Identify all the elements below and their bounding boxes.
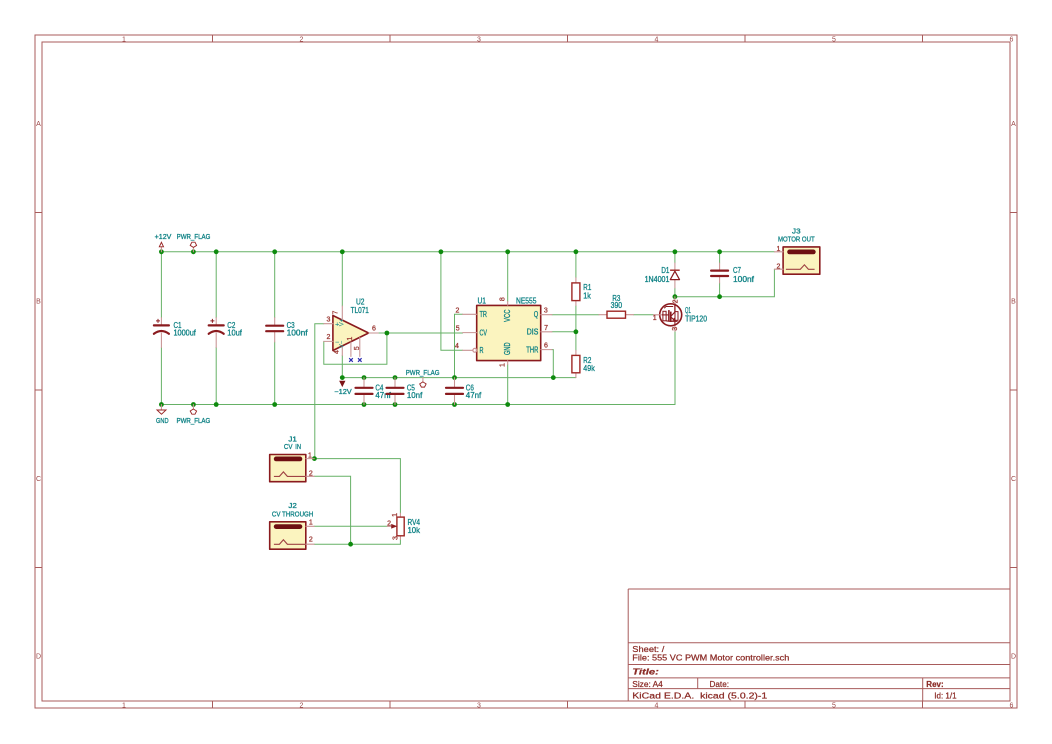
wire D1 bottom xyxy=(674,288,676,297)
connector J1 CV IN xyxy=(270,437,315,482)
svg-text:100nf: 100nf xyxy=(733,275,755,284)
svg-text:1: 1 xyxy=(308,453,312,460)
svg-text:1: 1 xyxy=(392,513,399,517)
svg-text:5: 5 xyxy=(354,346,361,350)
svg-text:7: 7 xyxy=(332,310,339,314)
svg-text:2: 2 xyxy=(309,537,313,544)
junction -12V rail at THR wire xyxy=(551,375,556,380)
svg-text:NE555: NE555 xyxy=(516,296,537,305)
svg-text:U1: U1 xyxy=(478,296,487,305)
capacitor C7 xyxy=(711,263,755,284)
junction top rail at D1 xyxy=(673,249,678,254)
junction top rail at PWR_FLAG xyxy=(191,249,196,254)
junction DIS node xyxy=(574,329,579,334)
junction bottom rail at C3 xyxy=(272,402,277,407)
junction bottom rail at C4 xyxy=(362,402,367,407)
junction top rail at C1 xyxy=(159,249,164,254)
svg-text:TL071: TL071 xyxy=(351,306,370,315)
svg-text:Q: Q xyxy=(534,310,539,319)
capacitor C6 xyxy=(446,378,482,405)
svg-text:PWR_FLAG: PWR_FLAG xyxy=(406,370,440,377)
power +12V xyxy=(155,234,172,252)
svg-text:4: 4 xyxy=(333,350,340,354)
wire R1 bottom to DIS and R2 xyxy=(575,306,577,351)
svg-text:1: 1 xyxy=(309,520,313,527)
junction -12V rail at C4 xyxy=(362,375,367,380)
svg-text:J3: J3 xyxy=(792,228,801,235)
svg-text:C: C xyxy=(1011,476,1016,483)
junction J1 pin1 xyxy=(312,456,317,461)
svg-text:GND: GND xyxy=(503,342,512,355)
power GND xyxy=(156,405,169,425)
svg-text:1: 1 xyxy=(777,246,781,253)
wire -12V rail xyxy=(342,377,576,379)
svg-text:10nf: 10nf xyxy=(407,391,423,400)
junction J2 pin2 branch xyxy=(348,542,353,547)
power -12V xyxy=(334,381,352,396)
timer U1 NE555 xyxy=(455,296,552,367)
svg-text:6: 6 xyxy=(372,326,376,333)
wire 555 TR to -12V rail xyxy=(455,314,463,377)
svg-text:1k: 1k xyxy=(583,292,591,301)
capacitor C4 xyxy=(356,378,392,405)
svg-text:1: 1 xyxy=(500,363,507,367)
svg-text:MOTOR OUT: MOTOR OUT xyxy=(778,237,815,244)
wire C1 top xyxy=(160,252,162,318)
svg-text:Date:: Date: xyxy=(710,680,730,689)
svg-text:7: 7 xyxy=(544,325,548,332)
svg-text:Size: A4: Size: A4 xyxy=(632,680,663,689)
svg-text:GND: GND xyxy=(156,418,169,425)
junction -12V rail at U2 pin4 xyxy=(340,375,345,380)
wire 555 THR to -12V rail xyxy=(552,350,553,378)
svg-text:8: 8 xyxy=(500,297,507,301)
wire collector node to J3 pin2 xyxy=(675,269,775,297)
wire J1 pin2 down xyxy=(314,476,350,544)
svg-text:2: 2 xyxy=(672,299,679,303)
transistor Q1 TIP120 xyxy=(653,297,708,332)
no-connect x on U2 pin1 xyxy=(349,358,353,362)
svg-text:3: 3 xyxy=(672,327,679,331)
wire D1 top xyxy=(674,252,676,263)
wire GND bottom rail xyxy=(161,404,675,406)
svg-text:TR: TR xyxy=(480,310,488,319)
svg-text:2: 2 xyxy=(455,308,459,315)
svg-text:V−: V− xyxy=(339,340,345,348)
junction collector node at D1 xyxy=(673,294,678,299)
junction collector node at C7 xyxy=(717,294,722,299)
svg-text:1N4001: 1N4001 xyxy=(645,275,670,284)
capacitor C1 xyxy=(154,318,197,348)
svg-text:3: 3 xyxy=(544,307,548,314)
svg-text:3: 3 xyxy=(477,703,481,710)
svg-text:D: D xyxy=(36,654,41,661)
svg-text:Id: 1/1: Id: 1/1 xyxy=(934,692,957,701)
svg-text:B: B xyxy=(1011,299,1016,306)
junction top rail at reset wire xyxy=(439,249,444,254)
svg-text:2: 2 xyxy=(309,470,313,477)
svg-text:D1: D1 xyxy=(661,266,669,275)
svg-text:6: 6 xyxy=(544,343,548,350)
wire C4 C5 C6 bottoms xyxy=(364,396,455,405)
svg-text:File: 555 VC PWM Motor control: File: 555 VC PWM Motor controller.sch xyxy=(632,653,789,662)
wire C3 bottom xyxy=(274,342,276,405)
resistor R2 49k xyxy=(572,350,596,377)
svg-text:C7: C7 xyxy=(733,266,741,275)
svg-text:2: 2 xyxy=(387,520,391,527)
wire U2 output to 555 CV xyxy=(378,332,462,334)
svg-text:V+: V+ xyxy=(339,318,345,326)
svg-text:47nf: 47nf xyxy=(466,391,482,400)
title block xyxy=(628,589,1010,701)
junction bottom rail at C2 xyxy=(214,402,219,407)
svg-text:1: 1 xyxy=(122,37,126,44)
resistor R1 1k xyxy=(572,278,592,306)
svg-text:390: 390 xyxy=(611,301,623,310)
svg-text:6: 6 xyxy=(1010,703,1014,710)
junction bottom rail at C5 xyxy=(393,402,398,407)
svg-text:1: 1 xyxy=(347,337,354,341)
wire 555 VCC xyxy=(507,252,509,302)
wire C1 bottom xyxy=(160,348,162,405)
wire R3 to Q1 base xyxy=(634,314,654,316)
svg-text:C: C xyxy=(36,476,41,483)
svg-text:IN: IN xyxy=(295,444,301,451)
junction top rail at C3 xyxy=(272,249,277,254)
svg-text:1: 1 xyxy=(122,703,126,710)
wire J1 pin1 to RV4 pin1 xyxy=(314,459,400,514)
svg-text:CV THROUGH: CV THROUGH xyxy=(272,511,314,518)
svg-text:CV: CV xyxy=(480,328,488,337)
potentiometer RV4 10k xyxy=(387,513,421,540)
svg-text:10k: 10k xyxy=(408,526,421,535)
capacitor C2 xyxy=(209,318,243,348)
svg-text:DIS: DIS xyxy=(527,328,539,337)
svg-text:Rev:: Rev: xyxy=(926,680,943,689)
svg-text:CV: CV xyxy=(284,444,293,451)
wire U2 pin7 supply xyxy=(341,252,343,306)
wire C2 bottom xyxy=(215,348,217,405)
junction bottom rail at GND xyxy=(159,402,164,407)
junction bottom rail at C6 xyxy=(452,402,457,407)
wire C3 top xyxy=(274,252,276,318)
wire 555 GND xyxy=(507,365,509,405)
svg-text:Title:: Title: xyxy=(632,667,659,676)
junction U2 output xyxy=(385,331,390,336)
svg-text:100nf: 100nf xyxy=(287,328,309,337)
junction bottom rail at PWR_FLAG xyxy=(191,402,196,407)
svg-text:VCC: VCC xyxy=(503,309,512,322)
svg-text:D: D xyxy=(1011,654,1016,661)
wire +12V top rail xyxy=(161,251,774,253)
wire R1 top xyxy=(575,252,577,278)
wire Q1 emitter to GND rail xyxy=(674,331,676,404)
capacitor C3 xyxy=(266,318,308,342)
wire C7 top xyxy=(719,252,721,263)
svg-text:4: 4 xyxy=(655,37,659,44)
svg-text:A: A xyxy=(1011,121,1016,128)
diode D1 1N4001 xyxy=(645,263,680,288)
svg-text:4: 4 xyxy=(455,343,459,350)
svg-text:J2: J2 xyxy=(288,503,297,510)
svg-text:2: 2 xyxy=(300,703,304,710)
connector J2 CV THROUGH xyxy=(270,503,315,549)
svg-text:5: 5 xyxy=(456,326,460,333)
junction top rail at C7 xyxy=(717,249,722,254)
svg-text:B: B xyxy=(36,299,41,306)
svg-text:+12V: +12V xyxy=(155,234,172,241)
junction bottom rail at 555 GND xyxy=(505,402,510,407)
junction top rail at 555 VCC xyxy=(505,249,510,254)
connector J3 MOTOR OUT xyxy=(774,228,819,274)
svg-text:A: A xyxy=(36,121,41,128)
junction top rail at R1 xyxy=(574,249,579,254)
capacitor C5 xyxy=(387,378,424,405)
svg-text:1: 1 xyxy=(653,315,657,322)
wire J2 pin2 to RV4 pin3 xyxy=(314,540,400,545)
svg-text:49k: 49k xyxy=(583,364,595,373)
wire U2 feedback loop xyxy=(324,333,387,364)
svg-text:47nf: 47nf xyxy=(375,391,391,400)
svg-text:2: 2 xyxy=(326,334,330,341)
wire U2 pin4 to -12V rail xyxy=(341,356,343,378)
svg-text:4: 4 xyxy=(655,703,659,710)
wire C2 top xyxy=(215,252,217,318)
svg-text:3: 3 xyxy=(326,316,330,323)
svg-text:PWR_FLAG: PWR_FLAG xyxy=(177,418,211,425)
svg-text:THR: THR xyxy=(526,345,538,354)
power flag at C5 xyxy=(406,370,440,387)
svg-text:3: 3 xyxy=(477,37,481,44)
resistor R3 390 xyxy=(599,294,634,318)
wire J2 pin1 to RV4 wiper xyxy=(314,525,387,527)
op-amp U2 TL071 xyxy=(324,297,379,356)
power flag top xyxy=(177,234,211,252)
svg-text:6: 6 xyxy=(1010,37,1014,44)
junction top rail at U2 pin7 xyxy=(340,249,345,254)
wire 555 DIS xyxy=(552,331,576,333)
svg-text:2: 2 xyxy=(300,37,304,44)
svg-text:−12V: −12V xyxy=(334,389,352,396)
wire 555 Q to R3 xyxy=(552,314,599,316)
svg-text:3: 3 xyxy=(393,536,400,540)
svg-text:J1: J1 xyxy=(288,437,297,444)
svg-text:TIP120: TIP120 xyxy=(685,315,707,324)
svg-text:5: 5 xyxy=(832,37,836,44)
svg-text:1000uf: 1000uf xyxy=(174,328,197,337)
junction -12V rail at C6 xyxy=(452,375,457,380)
junction top rail at C2 xyxy=(214,249,219,254)
svg-text:KiCad E.D.A. kicad (5.0.2)-1: KiCad E.D.A. kicad (5.0.2)-1 xyxy=(632,692,768,701)
wire C7 bottom xyxy=(719,283,721,297)
svg-text:10uf: 10uf xyxy=(227,328,242,337)
no-connect x on U2 pin5 xyxy=(358,358,362,362)
wire U2 +input to J1 pin1 xyxy=(315,324,324,459)
wire +12V to 555 reset pin xyxy=(441,252,463,350)
power flag bottom xyxy=(177,405,211,425)
svg-text:5: 5 xyxy=(832,703,836,710)
svg-text:2: 2 xyxy=(777,263,781,270)
svg-text:PWR_FLAG: PWR_FLAG xyxy=(177,234,211,241)
svg-text:R: R xyxy=(480,346,484,355)
junction -12V rail at C5 xyxy=(393,375,398,380)
